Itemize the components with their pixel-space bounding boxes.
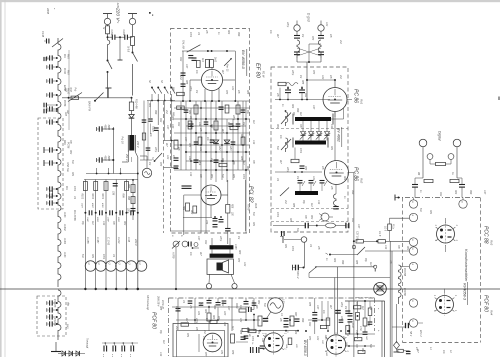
svg-text:R103: R103 <box>81 194 83 200</box>
svg-text:R58: R58 <box>231 204 233 209</box>
svg-text:R52: R52 <box>310 215 312 220</box>
svg-text:R99: R99 <box>341 260 343 265</box>
svg-text:R88: R88 <box>246 90 248 95</box>
svg-text:L53: L53 <box>282 299 286 304</box>
svg-text:Tonausgl: Tonausgl <box>86 338 89 348</box>
svg-text:C22: C22 <box>316 336 318 341</box>
svg-text:9000: 9000 <box>96 217 98 223</box>
svg-text:Si 0,8: Si 0,8 <box>127 46 130 53</box>
svg-text:C47: C47 <box>166 125 169 130</box>
svg-text:C14: C14 <box>317 200 320 205</box>
svg-text:1M: 1M <box>299 75 301 78</box>
svg-text:EF 80: EF 80 <box>255 63 261 79</box>
svg-text:Rö6: Rö6 <box>63 140 66 145</box>
svg-text:D gnd: D gnd <box>307 13 311 22</box>
svg-text:100k: 100k <box>276 212 278 218</box>
svg-text:2n2: 2n2 <box>179 75 181 81</box>
svg-text:R31: R31 <box>429 210 431 215</box>
svg-text:100k: 100k <box>251 336 253 342</box>
svg-text:R77: R77 <box>204 352 206 357</box>
svg-text:C14: C14 <box>330 124 333 129</box>
svg-text:R71: R71 <box>186 333 188 338</box>
svg-text:100k: 100k <box>299 148 301 154</box>
svg-text:R73: R73 <box>159 162 161 167</box>
svg-text:C44: C44 <box>188 156 191 161</box>
svg-text:A 214: A 214 <box>117 236 120 244</box>
svg-text:Rö1: Rö1 <box>360 99 364 105</box>
svg-text:R31: R31 <box>330 146 332 151</box>
svg-text:R52: R52 <box>123 221 125 226</box>
svg-text:C14: C14 <box>189 172 192 177</box>
svg-text:R88: R88 <box>239 330 241 335</box>
svg-text:R99: R99 <box>154 110 156 115</box>
svg-text:R 1a: R 1a <box>392 224 394 230</box>
svg-text:R31: R31 <box>284 244 286 249</box>
svg-text:R99: R99 <box>469 190 471 195</box>
svg-text:LG 8: LG 8 <box>384 226 386 232</box>
svg-text:220p: 220p <box>286 21 288 28</box>
svg-text:2n2: 2n2 <box>339 74 341 80</box>
svg-text:R63: R63 <box>212 315 214 320</box>
svg-text:R88: R88 <box>171 116 173 121</box>
svg-text:C47: C47 <box>197 236 200 241</box>
svg-text:220 V~: 220 V~ <box>115 7 121 24</box>
svg-text:PL36: PL36 <box>63 68 66 74</box>
svg-text:1M: 1M <box>195 90 197 93</box>
svg-text:1M: 1M <box>344 306 346 309</box>
svg-text:GAL AM: GAL AM <box>182 40 185 49</box>
svg-text:R88: R88 <box>292 203 294 208</box>
svg-text:C22: C22 <box>321 75 323 80</box>
svg-text:C61: C61 <box>197 311 199 316</box>
svg-text:C81: C81 <box>220 350 222 355</box>
svg-text:2n2: 2n2 <box>342 335 344 341</box>
svg-text:GB Fernausgl: GB Fernausgl <box>146 295 149 310</box>
svg-text:R52: R52 <box>406 246 408 251</box>
svg-text:C47: C47 <box>184 137 187 142</box>
svg-text:PCC88: PCC88 <box>403 268 406 277</box>
svg-text:C 5n: C 5n <box>359 326 361 332</box>
svg-text:R73: R73 <box>304 166 306 171</box>
svg-text:C12a: C12a <box>152 126 155 132</box>
svg-text:R79: R79 <box>231 350 233 355</box>
svg-text:R52: R52 <box>361 348 363 353</box>
svg-text:100k: 100k <box>242 174 244 180</box>
svg-text:C71: C71 <box>202 336 204 341</box>
svg-text:R99: R99 <box>351 190 353 195</box>
svg-text:R38: R38 <box>240 156 242 161</box>
svg-text:C40: C40 <box>171 124 174 129</box>
svg-text:C47: C47 <box>316 305 319 310</box>
svg-text:C160: C160 <box>122 30 125 36</box>
svg-text:G53: G53 <box>229 146 231 151</box>
svg-text:Prü FC86: Prü FC86 <box>73 210 76 221</box>
svg-text:100k: 100k <box>73 186 75 192</box>
svg-text:BV 4058-3: BV 4058-3 <box>303 340 307 356</box>
svg-text:9000: 9000 <box>117 217 119 223</box>
svg-text:R12: R12 <box>159 118 161 123</box>
svg-text:230 V: 230 V <box>136 140 139 148</box>
svg-text:1k60: 1k60 <box>214 57 216 63</box>
svg-text:R99: R99 <box>213 305 215 310</box>
svg-text:Rö3: Rö3 <box>490 240 494 246</box>
svg-text:R101: R101 <box>101 194 103 200</box>
svg-text:2n2: 2n2 <box>284 199 286 205</box>
svg-text:R31: R31 <box>252 222 254 227</box>
svg-text:C60: C60 <box>223 311 225 316</box>
svg-text:C22: C22 <box>166 155 168 160</box>
svg-text:PCF 80: PCF 80 <box>483 295 489 312</box>
svg-text:EPC 2: EPC 2 <box>419 330 421 337</box>
svg-text:A 700: A 700 <box>172 251 175 259</box>
svg-text:100k: 100k <box>189 32 191 38</box>
svg-text:A 487: A 487 <box>96 236 99 244</box>
svg-text:R73: R73 <box>311 36 313 41</box>
svg-text:4552: 4552 <box>104 125 107 131</box>
svg-text:PCC 88: PCC 88 <box>483 226 489 244</box>
svg-text:C180: C180 <box>234 244 236 250</box>
svg-text:2n2: 2n2 <box>175 325 177 331</box>
svg-text:G52: G52 <box>218 146 220 151</box>
svg-text:HB 2: HB 2 <box>409 331 411 337</box>
svg-text:1M: 1M <box>296 176 298 179</box>
svg-text:PCF80: PCF80 <box>53 318 57 327</box>
svg-text:R75: R75 <box>308 302 310 307</box>
svg-text:C22: C22 <box>239 318 241 323</box>
svg-text:R64: R64 <box>454 190 457 195</box>
svg-text:R12: R12 <box>351 218 353 223</box>
svg-text:4087: 4087 <box>91 203 94 209</box>
svg-text:220p: 220p <box>189 85 191 92</box>
svg-text:R88: R88 <box>185 80 187 85</box>
svg-text:PC86: PC86 <box>63 100 66 107</box>
svg-text:Rö5: Rö5 <box>254 203 258 209</box>
svg-text:C159: C159 <box>110 30 113 36</box>
svg-text:R102: R102 <box>91 194 93 200</box>
svg-text:250 V~: 250 V~ <box>125 153 128 163</box>
svg-text:3327: 3327 <box>81 203 83 209</box>
svg-text:R88: R88 <box>301 80 303 85</box>
svg-text:R73: R73 <box>308 336 310 341</box>
svg-text:4381: 4381 <box>101 203 104 209</box>
svg-text:R52: R52 <box>69 150 71 155</box>
svg-text:3000: 3000 <box>107 156 110 162</box>
svg-text:R12: R12 <box>204 240 206 245</box>
svg-text:Prü: Prü <box>65 186 68 191</box>
svg-text:R95: R95 <box>127 196 129 201</box>
svg-text:2231: 2231 <box>116 2 119 9</box>
svg-text:1M: 1M <box>148 162 150 165</box>
svg-text:220p: 220p <box>127 207 129 214</box>
svg-text:Digital: Digital <box>438 131 442 141</box>
svg-text:BV 4002: BV 4002 <box>337 128 341 142</box>
svg-text:R64: R64 <box>227 30 230 35</box>
svg-text:Ferr 15: Ferr 15 <box>226 64 228 72</box>
svg-text:R47: R47 <box>294 312 297 317</box>
svg-text:R73: R73 <box>225 90 227 95</box>
svg-text:A 700: A 700 <box>247 203 250 211</box>
svg-text:C47: C47 <box>185 64 188 69</box>
svg-text:R60: R60 <box>238 250 240 255</box>
svg-text:R31: R31 <box>289 218 291 223</box>
svg-text:Koordinatenwähler: Koordinatenwähler <box>464 249 469 282</box>
svg-text:R64: R64 <box>333 258 336 263</box>
svg-text:R31: R31 <box>257 330 259 335</box>
svg-text:Prü: Prü <box>74 88 77 92</box>
svg-text:C14: C14 <box>102 221 105 226</box>
svg-text:BV 4058-0: BV 4058-0 <box>241 50 246 70</box>
svg-text:C14: C14 <box>223 322 226 327</box>
svg-text:A 188: A 188 <box>86 236 89 244</box>
svg-text:R73: R73 <box>237 258 239 263</box>
svg-text:R12: R12 <box>304 93 306 98</box>
svg-text:R64: R64 <box>291 104 294 109</box>
svg-text:R12: R12 <box>177 122 179 127</box>
svg-text:C14: C14 <box>252 140 255 145</box>
svg-text:R44: R44 <box>172 87 175 92</box>
svg-text:C22: C22 <box>199 147 201 152</box>
svg-text:R12: R12 <box>439 192 441 197</box>
svg-text:AUD2: AUD2 <box>63 223 66 231</box>
svg-text:AUD: AUD <box>63 251 66 257</box>
svg-text:R73: R73 <box>312 70 314 75</box>
svg-text:R101: R101 <box>235 303 237 309</box>
svg-text:C22: C22 <box>231 86 233 91</box>
svg-text:220p: 220p <box>286 166 288 173</box>
svg-text:R43: R43 <box>66 324 69 329</box>
svg-text:C22: C22 <box>325 22 327 27</box>
svg-text:UHF Tun: UHF Tun <box>66 162 69 173</box>
svg-text:220: 220 <box>231 211 233 217</box>
svg-text:AUD: AUD <box>63 211 66 217</box>
svg-text:220p: 220p <box>154 146 156 153</box>
svg-text:AUDI: AUDI <box>63 237 66 244</box>
svg-text:PCF 80: PCF 80 <box>151 312 157 329</box>
svg-text:2n2: 2n2 <box>203 329 205 335</box>
svg-text:2W48: 2W48 <box>46 7 49 15</box>
svg-text:R88: R88 <box>159 306 161 311</box>
svg-text:3000: 3000 <box>107 125 110 131</box>
svg-text:R52: R52 <box>276 124 278 129</box>
svg-text:C47: C47 <box>483 190 486 195</box>
svg-text:LG 8: LG 8 <box>378 231 381 237</box>
svg-text:R73: R73 <box>217 316 219 321</box>
svg-text:PC 86: PC 86 <box>353 89 359 103</box>
svg-text:R31: R31 <box>71 172 73 177</box>
svg-text:R114 4W: R114 4W <box>135 99 138 110</box>
svg-text:R99: R99 <box>296 108 298 113</box>
svg-text:104F: 104F <box>86 217 89 223</box>
svg-text:R88: R88 <box>355 260 357 265</box>
svg-text:C148: C148 <box>41 31 44 38</box>
svg-text:1M: 1M <box>205 318 207 321</box>
svg-text:220p: 220p <box>340 301 342 308</box>
svg-text:C47: C47 <box>312 105 315 110</box>
svg-text:R73: R73 <box>188 143 190 148</box>
svg-text:C14: C14 <box>384 245 387 250</box>
svg-text:BAW FM: BAW FM <box>88 101 91 112</box>
svg-text:2n2: 2n2 <box>339 39 341 45</box>
svg-text:R99: R99 <box>122 194 124 199</box>
svg-text:C 1743: C 1743 <box>107 237 110 246</box>
svg-text:HFC-2: HFC-2 <box>296 271 299 279</box>
svg-text:R52: R52 <box>257 300 259 305</box>
svg-text:4552: 4552 <box>104 156 107 162</box>
svg-text:C22: C22 <box>312 176 314 181</box>
svg-text:R1 W: R1 W <box>262 71 266 78</box>
svg-text:100k: 100k <box>291 246 293 252</box>
svg-text:1M: 1M <box>301 34 303 37</box>
svg-text:R64: R64 <box>294 330 297 335</box>
svg-text:Prü 10: Prü 10 <box>121 137 124 145</box>
svg-text:AM: AM <box>64 87 67 92</box>
svg-text:2n2: 2n2 <box>165 109 167 115</box>
svg-text:R99: R99 <box>301 318 303 323</box>
svg-text:R12: R12 <box>179 57 181 62</box>
svg-text:Prü: Prü <box>63 54 66 59</box>
svg-text:C47: C47 <box>357 224 360 229</box>
svg-text:1M: 1M <box>237 236 239 239</box>
svg-text:220p: 220p <box>291 69 293 76</box>
svg-text:C47: C47 <box>227 306 230 311</box>
svg-text:RV4058-3: RV4058-3 <box>463 283 467 301</box>
svg-text:C22: C22 <box>243 262 245 267</box>
svg-text:PC 86: PC 86 <box>353 167 359 181</box>
svg-text:R51: R51 <box>182 206 184 211</box>
svg-text:AM: AM <box>66 109 69 114</box>
svg-text:A 98: A 98 <box>127 236 130 243</box>
svg-text:R64: R64 <box>204 309 207 314</box>
svg-text:R12: R12 <box>221 302 223 307</box>
svg-text:100k: 100k <box>102 254 104 260</box>
svg-text:R94: R94 <box>127 184 130 189</box>
svg-text:220p: 220p <box>195 317 197 324</box>
svg-text:R64: R64 <box>343 176 346 181</box>
svg-text:C98: C98 <box>112 191 114 196</box>
svg-text:R31: R31 <box>91 254 93 259</box>
svg-text:Rö4: Rö4 <box>490 310 494 316</box>
svg-text:PCC88: PCC88 <box>53 299 57 308</box>
svg-text:104F: 104F <box>107 217 110 223</box>
svg-text:R47: R47 <box>69 88 72 93</box>
svg-text:220p: 220p <box>219 235 221 242</box>
svg-text:C14: C14 <box>369 306 372 311</box>
svg-text:220: 220 <box>295 343 297 348</box>
svg-text:PCL 82: PCL 82 <box>248 186 254 203</box>
svg-text:alig: alig <box>67 302 70 306</box>
svg-text:R52: R52 <box>190 210 192 215</box>
svg-text:R99: R99 <box>237 32 239 37</box>
svg-text:C56: C56 <box>205 220 207 225</box>
svg-text:C14: C14 <box>159 352 162 357</box>
svg-text:PCF80: PCF80 <box>403 288 406 296</box>
svg-text:R12: R12 <box>308 322 310 327</box>
svg-text:Rö2: Rö2 <box>360 178 364 184</box>
